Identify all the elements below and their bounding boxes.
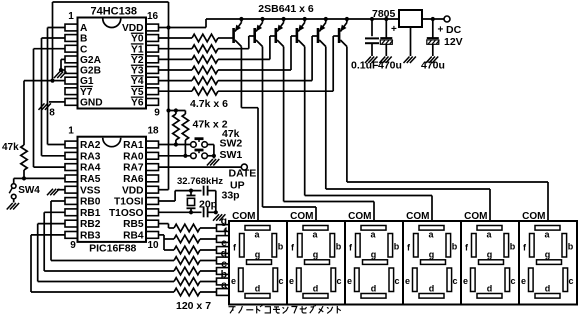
svg-text:32.768kHz: 32.768kHz [177, 176, 223, 187]
svg-text:470u: 470u [378, 60, 402, 72]
svg-text:9: 9 [154, 108, 160, 119]
svg-text:T1OSI: T1OSI [114, 197, 144, 208]
svg-text:COM: COM [290, 211, 313, 222]
svg-text:e: e [463, 276, 468, 286]
svg-text:COM: COM [348, 211, 371, 222]
svg-text:RB5: RB5 [123, 219, 144, 230]
svg-text:c: c [452, 276, 457, 286]
svg-text:RA5: RA5 [80, 174, 101, 185]
svg-text:VSS: VSS [80, 185, 101, 196]
svg-text:G2B: G2B [80, 66, 101, 77]
svg-text:RB3: RB3 [80, 231, 101, 242]
svg-text:e: e [405, 276, 410, 286]
svg-text:Y3: Y3 [131, 66, 144, 77]
svg-text:c: c [510, 276, 515, 286]
svg-text:RB2: RB2 [80, 219, 101, 230]
svg-text:g: g [313, 249, 319, 259]
svg-text:g: g [487, 249, 493, 259]
svg-text:d: d [545, 284, 551, 294]
svg-text:d: d [487, 284, 493, 294]
svg-text:c: c [568, 276, 573, 286]
svg-text:Y0: Y0 [131, 34, 144, 45]
svg-text:RA0: RA0 [123, 151, 144, 162]
svg-text:g: g [255, 249, 261, 259]
svg-text:RA4: RA4 [80, 163, 101, 174]
svg-text:e: e [289, 276, 294, 286]
svg-text:COM: COM [464, 211, 487, 222]
svg-text:16: 16 [147, 11, 159, 22]
svg-text:GND: GND [80, 98, 103, 109]
svg-text:b: b [278, 241, 284, 251]
svg-text:B: B [80, 34, 87, 45]
svg-text:33p: 33p [222, 190, 240, 202]
svg-text:Y5: Y5 [131, 87, 144, 98]
svg-text:1: 1 [68, 126, 74, 137]
svg-text:COM: COM [232, 211, 255, 222]
svg-text:RA7: RA7 [123, 163, 144, 174]
svg-text:d: d [429, 284, 435, 294]
svg-text:T1OSO: T1OSO [109, 208, 144, 219]
svg-text:g: g [429, 249, 435, 259]
svg-text:SW1: SW1 [220, 149, 243, 161]
svg-text:Y4: Y4 [131, 76, 144, 87]
svg-text:470u: 470u [421, 60, 445, 72]
svg-text:Y7: Y7 [80, 87, 93, 98]
svg-text:e: e [347, 276, 352, 286]
svg-text:20p: 20p [199, 199, 217, 211]
svg-text:d: d [371, 284, 377, 294]
svg-text:G1: G1 [80, 76, 94, 87]
svg-text:VDD: VDD [122, 23, 144, 34]
svg-text:9: 9 [70, 240, 76, 251]
svg-text:d: d [313, 284, 319, 294]
svg-text:RB1: RB1 [80, 208, 101, 219]
svg-text:2SB641 x 6: 2SB641 x 6 [258, 3, 314, 15]
svg-text:7805: 7805 [372, 8, 396, 20]
svg-text:g: g [371, 249, 377, 259]
svg-text:DC: DC [446, 24, 462, 36]
svg-text:RA1: RA1 [123, 140, 144, 151]
svg-text:PIC16F88: PIC16F88 [89, 243, 136, 255]
svg-text:b: b [452, 241, 458, 251]
svg-text:b: b [336, 241, 342, 251]
svg-text:RA2: RA2 [80, 140, 101, 151]
svg-text:c: c [336, 276, 341, 286]
svg-text:b: b [568, 241, 574, 251]
svg-text:Y6: Y6 [131, 98, 144, 109]
svg-text:g: g [545, 249, 551, 259]
svg-text:+: + [438, 25, 444, 36]
svg-text:c: c [394, 276, 399, 286]
svg-text:b: b [394, 241, 400, 251]
svg-text:74HC138: 74HC138 [91, 6, 137, 18]
svg-text:120 x 7: 120 x 7 [176, 300, 211, 312]
svg-text:1: 1 [68, 11, 74, 22]
svg-text:RB4: RB4 [123, 231, 144, 242]
svg-text:8: 8 [49, 108, 55, 119]
svg-text:18: 18 [147, 126, 159, 137]
svg-text:e: e [521, 276, 526, 286]
svg-text:Y1: Y1 [131, 44, 144, 55]
svg-text:RA3: RA3 [80, 151, 101, 162]
svg-text:b: b [510, 241, 516, 251]
svg-text:12V: 12V [444, 36, 463, 48]
svg-text:+: + [391, 24, 397, 35]
svg-text:c: c [278, 276, 283, 286]
svg-text:a: a [221, 279, 227, 291]
svg-text:RA6: RA6 [123, 174, 144, 185]
svg-text:RB0: RB0 [80, 197, 101, 208]
svg-text:G2A: G2A [80, 55, 102, 66]
svg-text:Y2: Y2 [131, 55, 144, 66]
svg-text:COM: COM [406, 211, 429, 222]
svg-text:DATE: DATE [229, 168, 257, 180]
svg-text:4.7k x 6: 4.7k x 6 [190, 98, 228, 110]
svg-text:10: 10 [147, 240, 159, 251]
svg-text:C: C [80, 44, 88, 55]
svg-text:VDD: VDD [122, 185, 144, 196]
svg-text:d: d [255, 284, 261, 294]
svg-text:A: A [80, 23, 88, 34]
svg-text:0.1uF: 0.1uF [351, 60, 379, 72]
svg-text:e: e [231, 276, 236, 286]
svg-text:SW4: SW4 [18, 185, 40, 196]
svg-text:47k: 47k [2, 142, 19, 153]
svg-text:COM: COM [522, 211, 545, 222]
